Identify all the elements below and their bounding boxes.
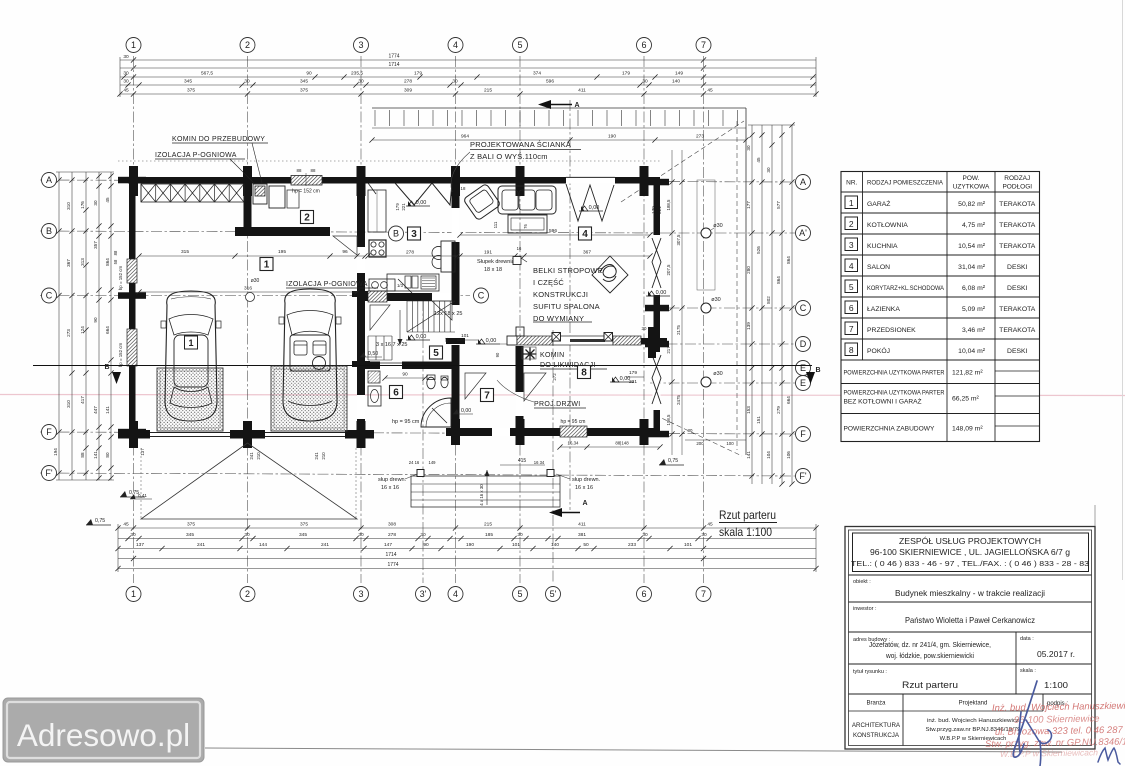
stair arrow <box>399 310 401 345</box>
room label 6 <box>390 386 403 399</box>
svg-text:90: 90 <box>495 352 500 357</box>
svg-text:310: 310 <box>66 400 71 408</box>
svg-text:obiekt :: obiekt : <box>853 579 871 585</box>
svg-text:121,82 m²: 121,82 m² <box>952 370 983 377</box>
kitchen dining table + chairs <box>441 241 455 272</box>
svg-text:100: 100 <box>726 441 734 446</box>
svg-text:A: A <box>582 500 587 507</box>
svg-text:88: 88 <box>311 168 316 173</box>
right band ticks and numbers <box>749 132 754 137</box>
toilet <box>427 377 435 389</box>
svg-text:210: 210 <box>256 452 261 460</box>
svg-text:88|148: 88|148 <box>615 441 629 446</box>
svg-text:1: 1 <box>131 589 136 599</box>
salon dim line <box>460 255 650 257</box>
svg-text:data :: data : <box>1020 636 1034 642</box>
svg-text:88: 88 <box>80 452 85 458</box>
svg-text:664: 664 <box>786 396 791 404</box>
interior wall room2 bottom <box>235 227 330 236</box>
bathroom top wall <box>365 362 457 370</box>
svg-text:141: 141 <box>746 451 751 459</box>
svg-text:1: 1 <box>849 198 854 208</box>
svg-text:278: 278 <box>406 250 414 256</box>
section line A-A vertical <box>569 100 571 510</box>
svg-text:217: 217 <box>666 346 671 354</box>
svg-text:90: 90 <box>402 372 408 378</box>
roof hip dashed bottom <box>655 415 742 456</box>
washer bottom-left <box>369 279 395 291</box>
kitchen bottom wall <box>365 293 457 301</box>
svg-text:374: 374 <box>533 71 541 77</box>
svg-text:140: 140 <box>672 79 680 85</box>
garage right wall door gaps <box>357 247 365 273</box>
left dimension band lines <box>58 172 60 480</box>
svg-text:176: 176 <box>80 201 85 209</box>
svg-text:139: 139 <box>746 322 751 330</box>
section B arrow left <box>112 372 121 384</box>
svg-text:TERAKOTA: TERAKOTA <box>999 243 1036 250</box>
svg-text:190: 190 <box>608 134 616 140</box>
room label 2 <box>301 211 314 224</box>
svg-text:45: 45 <box>123 522 129 528</box>
svg-text:B: B <box>104 364 109 371</box>
svg-text:0,75: 0,75 <box>95 518 105 524</box>
svg-text:F: F <box>800 429 806 439</box>
svg-text:inwestor :: inwestor : <box>853 606 877 612</box>
svg-text:90: 90 <box>306 71 312 77</box>
svg-text:30: 30 <box>244 79 250 85</box>
salon/room8 wall with hatch <box>507 336 517 345</box>
svg-text:241: 241 <box>314 452 319 460</box>
svg-text:30: 30 <box>642 532 648 538</box>
svg-text:30: 30 <box>420 532 426 538</box>
svg-text:215: 215 <box>484 522 492 528</box>
top wall door opening with hatched lintel hp=152 <box>291 176 322 186</box>
branza projektant podpis row <box>902 694 904 746</box>
bottom dimension band lines <box>118 527 816 529</box>
svg-text:221: 221 <box>401 203 406 211</box>
lintel X squares <box>552 333 561 342</box>
svg-text:0,75: 0,75 <box>668 458 678 464</box>
svg-text:Adresowo.pl: Adresowo.pl <box>17 717 190 753</box>
svg-text:hp = 152 cm: hp = 152 cm <box>118 266 123 291</box>
svg-text:235,5: 235,5 <box>351 71 363 77</box>
svg-text:200: 200 <box>696 441 704 446</box>
svg-text:76: 76 <box>523 224 528 229</box>
title block outer frame <box>845 527 1095 750</box>
svg-text:375: 375 <box>300 88 308 94</box>
svg-text:I CZĘŚĆ: I CZĘŚĆ <box>533 278 564 287</box>
svg-text:375: 375 <box>187 522 195 528</box>
svg-text:B: B <box>393 229 399 239</box>
left exterior wall <box>129 177 136 448</box>
svg-text:KONSTRUKCJI: KONSTRUKCJI <box>533 290 588 299</box>
svg-text:80: 80 <box>105 452 110 458</box>
svg-text:0,00: 0,00 <box>416 200 427 206</box>
svg-text:6: 6 <box>641 40 646 50</box>
svg-text:KOMIN DO PRZEBUDOWY: KOMIN DO PRZEBUDOWY <box>172 136 265 143</box>
room label 8 <box>578 366 591 379</box>
kitchen dim 278 <box>368 255 457 257</box>
svg-text:ARCHITEKTURA: ARCHITEKTURA <box>852 722 901 729</box>
svg-text:381: 381 <box>578 532 586 538</box>
svg-text:90: 90 <box>423 542 429 548</box>
svg-text:5,09 m²: 5,09 m² <box>962 306 986 313</box>
svg-text:Projektand: Projektand <box>959 701 988 707</box>
svg-text:367: 367 <box>66 259 71 267</box>
svg-text:KORYTARZ+KL.SCHODOWA: KORYTARZ+KL.SCHODOWA <box>867 285 944 292</box>
svg-text:2: 2 <box>245 40 250 50</box>
svg-text:1774: 1774 <box>388 54 399 60</box>
faint page edge line <box>1122 0 1124 580</box>
svg-text:KOTŁOWNIA: KOTŁOWNIA <box>867 222 908 229</box>
svg-text:05.2017 r.: 05.2017 r. <box>1037 649 1075 659</box>
armchair rotated <box>463 183 501 220</box>
svg-text:C: C <box>800 303 807 313</box>
svg-text:596: 596 <box>546 79 554 85</box>
svg-text:inż. bud. Wojciech Hanuszkiewi: inż. bud. Wojciech Hanuszkiewicz <box>927 718 1019 724</box>
svg-text:7: 7 <box>484 391 490 402</box>
svg-text:skala 1:100: skala 1:100 <box>719 525 772 539</box>
dashed chimney box <box>522 347 536 359</box>
right wing bottom wall <box>446 428 660 436</box>
svg-text:1774: 1774 <box>387 562 398 568</box>
svg-text:0,00: 0,00 <box>461 408 471 414</box>
svg-text:3: 3 <box>358 589 363 599</box>
svg-text:0,00: 0,00 <box>486 338 497 344</box>
right margin scan line <box>1094 505 1096 527</box>
salon log window zigzag <box>566 184 614 221</box>
svg-text:B: B <box>46 226 52 236</box>
roof dim line <box>372 139 746 141</box>
section line B-B horizontal <box>33 365 812 367</box>
terrace edge vertical <box>745 108 747 455</box>
svg-text:IZOLACJA P-OGNIOWA: IZOLACJA P-OGNIOWA <box>155 152 237 159</box>
svg-text:278: 278 <box>388 532 396 538</box>
svg-text:864: 864 <box>786 256 791 264</box>
svg-text:147: 147 <box>384 542 392 548</box>
svg-text:210: 210 <box>321 452 326 460</box>
svg-text:Z BALI O WYŚ.110cm: Z BALI O WYŚ.110cm <box>470 152 548 161</box>
svg-text:567,5: 567,5 <box>201 71 213 77</box>
right wall log zigzag windows <box>653 235 661 295</box>
grid bubbles top 1-7 <box>126 38 141 53</box>
obiekt row <box>849 574 1092 576</box>
main stairs 12x18x25 <box>406 301 408 332</box>
svg-text:6: 6 <box>849 303 854 313</box>
coffee table <box>508 215 547 233</box>
small stairs 3 x 16,7 x 25 <box>367 336 369 360</box>
svg-text:375: 375 <box>300 522 308 528</box>
grid4 interior wall <box>452 184 460 435</box>
svg-text:233: 233 <box>628 542 636 548</box>
top dimension band lines <box>120 59 816 61</box>
svg-text:194: 194 <box>53 448 58 456</box>
svg-text:B: B <box>815 367 820 374</box>
svg-text:30: 30 <box>358 79 364 85</box>
svg-text:0,50: 0,50 <box>368 351 378 357</box>
garage lower dim line <box>139 291 357 293</box>
svg-text:577: 577 <box>776 201 781 209</box>
svg-text:279: 279 <box>776 406 781 414</box>
svg-text:45: 45 <box>756 157 761 163</box>
svg-text:357: 357 <box>93 241 98 249</box>
svg-text:151: 151 <box>756 416 761 424</box>
svg-text:1:100: 1:100 <box>1044 680 1068 690</box>
svg-text:KONSTRUKCJA: KONSTRUKCJA <box>853 732 900 739</box>
svg-text:179: 179 <box>629 370 637 376</box>
svg-text:96-100 SKIERNIEWICE , UL. JAGI: 96-100 SKIERNIEWICE , UL. JAGIELLOŃSKA 6… <box>870 548 1070 557</box>
svg-text:30: 30 <box>244 532 250 538</box>
svg-text:TERAKOTA: TERAKOTA <box>999 306 1036 313</box>
chimney block 2 <box>269 186 285 208</box>
svg-text:802: 802 <box>766 296 771 304</box>
washbasin <box>368 386 381 406</box>
svg-text:7: 7 <box>701 40 706 50</box>
svg-text:PODŁOGI: PODŁOGI <box>1002 184 1032 191</box>
svg-text:5': 5' <box>550 589 557 599</box>
svg-text:313: 313 <box>80 258 85 266</box>
terrace inner dim chains <box>671 150 673 455</box>
svg-text:KUCHNIA: KUCHNIA <box>867 243 898 250</box>
svg-text:273: 273 <box>66 329 71 337</box>
svg-text:526: 526 <box>756 246 761 254</box>
grid axis vertical lines <box>133 56 135 583</box>
svg-text:DESKI: DESKI <box>1007 264 1028 271</box>
svg-text:4 x 16 x 30: 4 x 16 x 30 <box>479 484 484 506</box>
svg-text:A: A <box>46 175 52 185</box>
svg-text:4: 4 <box>453 589 458 599</box>
blue initials bottom right <box>1098 748 1120 764</box>
svg-text:241: 241 <box>321 542 329 548</box>
svg-text:2175: 2175 <box>676 325 681 335</box>
svg-text:45: 45 <box>707 88 713 94</box>
svg-text:3: 3 <box>358 40 363 50</box>
svg-text:111: 111 <box>493 221 498 228</box>
svg-text:315: 315 <box>181 249 189 255</box>
svg-text:PROJEKTOWANA ŚCIANKA: PROJEKTOWANA ŚCIANKA <box>470 140 571 149</box>
svg-text:345: 345 <box>186 532 194 538</box>
svg-text:375: 375 <box>187 88 195 94</box>
roof overhang lines top right <box>372 107 746 109</box>
svg-text:964: 964 <box>461 134 469 140</box>
dotted roof overhang above top wall <box>118 160 660 162</box>
wall between rooms 7 and 8 <box>516 346 524 434</box>
bottom wall door gap <box>492 428 510 436</box>
svg-text:58: 58 <box>113 259 118 264</box>
pink scan line across page <box>0 395 1125 396</box>
svg-text:3: 3 <box>849 240 854 250</box>
svg-text:101: 101 <box>684 542 692 548</box>
salon levels <box>646 290 670 296</box>
svg-text:1: 1 <box>131 40 136 50</box>
svg-text:207,5: 207,5 <box>666 264 671 276</box>
room label 5 <box>430 346 443 359</box>
svg-text:16 34: 16 34 <box>534 460 545 465</box>
svg-text:SUFITU SPALONA: SUFITU SPALONA <box>533 302 600 311</box>
svg-text:221: 221 <box>629 379 637 385</box>
svg-text:310: 310 <box>66 202 71 210</box>
left wall pier crosses <box>118 177 146 184</box>
svg-text:664: 664 <box>105 326 110 334</box>
svg-text:hp = 152 cm: hp = 152 cm <box>118 343 123 368</box>
rafter ticks <box>374 110 376 126</box>
svg-text:5: 5 <box>517 40 522 50</box>
svg-text:10,04 m²: 10,04 m² <box>958 348 986 355</box>
svg-text:195: 195 <box>278 249 286 255</box>
svg-text:215: 215 <box>484 88 492 94</box>
svg-text:3,46 m²: 3,46 m² <box>962 327 986 334</box>
svg-text:179: 179 <box>414 71 422 77</box>
svg-text:141: 141 <box>105 406 110 414</box>
svg-text:864: 864 <box>776 276 781 284</box>
svg-text:ø30: ø30 <box>713 371 722 377</box>
svg-text:Budynek mieszkalny - w trakcie: Budynek mieszkalny - w trakcie realizacj… <box>895 588 1045 598</box>
svg-text:BELKI STROPOWE: BELKI STROPOWE <box>533 266 603 275</box>
svg-text:30: 30 <box>517 532 523 538</box>
svg-text:F: F <box>46 427 52 437</box>
svg-text:DESKI: DESKI <box>1007 285 1028 292</box>
svg-text:30: 30 <box>123 71 129 77</box>
hatched wall bits bathroom <box>368 371 380 383</box>
kitchen stove 4 burners <box>369 240 386 257</box>
room label 3 <box>408 227 421 240</box>
svg-text:104: 104 <box>766 451 771 459</box>
car 1 sedan in garage <box>161 291 221 421</box>
svg-text:417: 417 <box>80 396 85 404</box>
svg-text:6: 6 <box>393 388 399 399</box>
svg-text:31,04 m²: 31,04 m² <box>958 264 986 271</box>
svg-text:149: 149 <box>429 460 437 465</box>
svg-text:F': F' <box>45 468 52 478</box>
top wall pier crosses <box>129 166 138 196</box>
svg-text:ŁAZIENKA: ŁAZIENKA <box>867 306 900 313</box>
svg-text:411: 411 <box>578 522 586 528</box>
terrace dashed outline <box>697 180 715 290</box>
svg-text:153: 153 <box>746 406 751 414</box>
svg-text:106: 106 <box>786 451 791 459</box>
top exterior wall <box>128 177 660 184</box>
svg-text:345: 345 <box>184 79 192 85</box>
svg-text:124: 124 <box>80 326 85 334</box>
garage bottom wall <box>118 430 374 439</box>
svg-text:16: 16 <box>517 246 522 251</box>
car 1 plate label <box>185 336 198 349</box>
room label 1 garage <box>260 258 273 271</box>
garage floor pad 1 (stippled) <box>157 368 223 431</box>
svg-text:90: 90 <box>93 317 98 323</box>
svg-text:Rzut parteru: Rzut parteru <box>902 680 958 691</box>
svg-text:141: 141 <box>93 451 98 459</box>
svg-text:A: A <box>574 102 579 109</box>
kitchen diagonal door swing <box>398 279 412 293</box>
svg-text:50: 50 <box>583 542 589 548</box>
svg-text:ø30: ø30 <box>713 223 722 229</box>
svg-text:BEZ KOTŁOWNI I GARAŻ: BEZ KOTŁOWNI I GARAŻ <box>844 397 922 406</box>
svg-text:307,5: 307,5 <box>676 234 681 246</box>
svg-text:12x 18 x 25: 12x 18 x 25 <box>434 311 462 317</box>
fireplace diamond with scribble <box>592 256 628 293</box>
svg-text:A: A <box>800 177 806 187</box>
svg-text:A': A' <box>799 228 807 238</box>
svg-text:16 x 16: 16 x 16 <box>575 485 593 491</box>
svg-text:UZYTKOWA: UZYTKOWA <box>953 184 990 191</box>
door swing triangles room 7/8 <box>524 373 546 401</box>
bottom wall window hatch hp=95 <box>560 426 587 437</box>
svg-text:TERAKOTA: TERAKOTA <box>999 222 1036 229</box>
svg-text:273: 273 <box>696 134 704 140</box>
svg-text:1714: 1714 <box>385 552 396 558</box>
svg-text:8: 8 <box>581 368 587 379</box>
table body rows <box>845 196 858 209</box>
svg-text:4: 4 <box>849 261 854 271</box>
table sub-divisions right column <box>995 370 1040 372</box>
svg-text:16,34: 16,34 <box>568 441 580 446</box>
svg-text:30: 30 <box>123 79 129 85</box>
svg-text:42: 42 <box>444 337 449 342</box>
kitchen bottom counter with sink <box>387 274 439 291</box>
svg-text:101: 101 <box>461 333 469 338</box>
svg-text:5: 5 <box>433 348 439 359</box>
svg-text:5: 5 <box>517 589 522 599</box>
svg-text:Branża: Branża <box>866 701 886 707</box>
chimney block with hatch <box>253 184 267 204</box>
svg-text:ø30: ø30 <box>251 278 260 284</box>
top band ticks and numbers <box>131 57 136 62</box>
svg-text:4,75 m²: 4,75 m² <box>962 222 986 229</box>
adresowo watermark box <box>3 698 204 762</box>
svg-text:45: 45 <box>105 197 110 203</box>
svg-text:30: 30 <box>358 532 364 538</box>
svg-text:5: 5 <box>849 282 854 292</box>
svg-text:2475: 2475 <box>676 395 681 405</box>
svg-text:308: 308 <box>388 522 396 528</box>
svg-text:137: 137 <box>140 448 145 456</box>
svg-text:0,00: 0,00 <box>589 205 600 211</box>
svg-text:ZESPÓŁ USŁUG PROJEKTOWYCH: ZESPÓŁ USŁUG PROJEKTOWYCH <box>899 536 1041 546</box>
fire insulation truss band <box>141 184 244 202</box>
section A arrow bottom <box>549 508 562 517</box>
svg-text:POWIERZCHNIA UZYTKOWA PARTER: POWIERZCHNIA UZYTKOWA PARTER <box>844 390 945 397</box>
svg-text:POWIERZCHNIA ZABUDOWY: POWIERZCHNIA ZABUDOWY <box>844 426 935 433</box>
kitchen 0,00 level <box>406 200 430 206</box>
svg-text:96: 96 <box>342 249 348 255</box>
svg-text:hp = 95 cm: hp = 95 cm <box>392 419 420 425</box>
svg-text:hp = 152 cm: hp = 152 cm <box>292 189 320 195</box>
svg-text:30: 30 <box>766 167 771 173</box>
svg-text:241: 241 <box>197 542 205 548</box>
garage right wall grid3 <box>357 177 365 438</box>
svg-text:316: 316 <box>244 286 252 292</box>
grid axis horizontal lines <box>40 180 795 182</box>
svg-text:149: 149 <box>675 71 683 77</box>
company header cell <box>853 533 1089 572</box>
svg-text:PRZEDSIONEK: PRZEDSIONEK <box>867 327 916 334</box>
svg-text:7: 7 <box>701 589 706 599</box>
svg-text:30: 30 <box>688 428 693 433</box>
svg-text:190: 190 <box>466 542 474 548</box>
svg-text:415: 415 <box>518 458 527 464</box>
svg-text:słup drewn.: słup drewn. <box>378 477 407 483</box>
svg-text:POW.: POW. <box>963 175 980 182</box>
sofa 3-seat <box>498 186 556 214</box>
svg-text:45: 45 <box>123 88 129 94</box>
svg-text:367: 367 <box>583 250 591 256</box>
svg-text:66,25 m²: 66,25 m² <box>952 396 980 403</box>
svg-text:88: 88 <box>113 250 118 255</box>
interior wall grid2 room1/2 <box>244 184 252 229</box>
svg-text:hp = 95 cm: hp = 95 cm <box>561 419 586 425</box>
